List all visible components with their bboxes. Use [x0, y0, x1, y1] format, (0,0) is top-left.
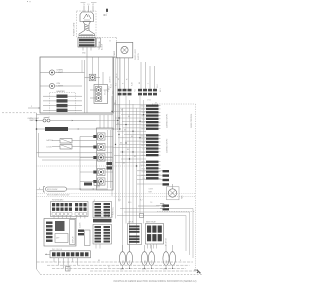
element column side bars — [107, 162, 113, 165]
svg-text:BK-12: BK-12 — [141, 135, 146, 137]
wires membrane to display — [53, 215, 55, 218]
svg-text:W-2: W-2 — [116, 83, 118, 86]
wires terminal strip down — [53, 258, 55, 262]
svg-text:BK-12: BK-12 — [141, 165, 146, 167]
svg-text:MTR: MTR — [151, 259, 153, 263]
power relay coil — [121, 46, 128, 53]
svg-text:DISPLAY: DISPLAY — [72, 235, 75, 243]
svg-text:FAN: FAN — [181, 195, 184, 199]
svg-text:GRD: GRD — [82, 53, 86, 55]
oven light lamp — [49, 70, 54, 75]
wire from terminal block through console — [86, 57, 88, 113]
heater element resistors — [57, 95, 68, 98]
console enclosure box — [40, 57, 113, 113]
meat probe pins — [163, 205, 170, 207]
wire bar extension to bus — [96, 128, 120, 130]
svg-text:BK: BK — [98, 260, 100, 262]
wire switch left — [37, 120, 44, 122]
svg-text:R-81: R-81 — [142, 142, 146, 144]
svg-text:R-30: R-30 — [132, 82, 134, 86]
svg-text:BU-7: BU-7 — [142, 175, 146, 177]
svg-text:R-81: R-81 — [142, 112, 146, 114]
wire to lock connector — [138, 205, 160, 207]
svg-text:BK-5: BK-5 — [128, 202, 132, 204]
svg-text:BK: BK — [128, 116, 130, 118]
svg-text:Y-3: Y-3 — [150, 202, 152, 204]
cavity dotted divider upper — [37, 165, 148, 167]
display board box — [44, 219, 76, 247]
svg-text:W-30: W-30 — [141, 168, 145, 170]
svg-text:BROIL ELEMENT 3400W 240V: BROIL ELEMENT 3400W 240V — [47, 194, 70, 196]
svg-text:GY-22: GY-22 — [105, 90, 107, 95]
svg-text:BU-7: BU-7 — [142, 145, 146, 147]
relay board block — [146, 224, 164, 245]
power cord dashed enclosure — [77, 11, 97, 37]
wire entering console — [28, 107, 40, 109]
svg-text:P3 KEYBOARD: P3 KEYBOARD — [52, 199, 64, 202]
svg-text:BK: BK — [121, 110, 123, 112]
svg-text:POWER CORD: POWER CORD — [74, 22, 76, 36]
svg-text:P4 1 2 3 4 5 6: P4 1 2 3 4 5 6 — [52, 249, 62, 251]
wire mesh vertical runs — [111, 96, 113, 196]
oven lamp L4 — [98, 168, 106, 175]
power cord plug head — [80, 12, 94, 22]
cabinet boundary vertical — [36, 113, 38, 269]
broil element — [46, 187, 67, 191]
terminal strip arrow — [45, 253, 46, 255]
svg-text:Y-14: Y-14 — [142, 149, 145, 151]
svg-text:BK: BK — [124, 129, 126, 131]
svg-text:BR-4: BR-4 — [142, 162, 146, 164]
wire switch right — [50, 120, 96, 122]
control board connector J2 lower — [93, 225, 112, 245]
svg-text:RELAY BD: RELAY BD — [165, 237, 168, 246]
svg-text:BK: BK — [123, 162, 125, 164]
display board pin bars — [46, 222, 53, 224]
oven lamp L3 — [98, 154, 106, 161]
svg-text:BK-20-W: BK-20-W — [102, 211, 104, 218]
svg-text:LOCK: LOCK — [47, 147, 53, 149]
cooktop lamp 2 — [95, 87, 102, 94]
svg-text:T-11: T-11 — [135, 89, 137, 92]
cavity dotted divider lower — [37, 193, 197, 195]
wire junctions — [111, 111, 112, 112]
svg-text:LIGHT: LIGHT — [57, 85, 64, 87]
svg-text:W-30: W-30 — [141, 109, 145, 111]
svg-text:Y-14: Y-14 — [142, 178, 145, 180]
wires console top to lamp brackets — [92, 57, 94, 74]
terminal strip TB1 — [50, 251, 91, 258]
heater dashed box — [50, 93, 76, 114]
svg-text:R-7: R-7 — [140, 200, 143, 202]
wire label bar near broil — [84, 183, 92, 186]
wire parallel lower — [42, 159, 112, 161]
svg-text:BROIL 3400W: BROIL 3400W — [47, 189, 58, 191]
svg-text:R: R — [180, 260, 182, 262]
power cord prong labels N L1 L2 — [83, 6, 85, 13]
svg-text:B: B — [110, 41, 111, 43]
wire switch extension to bus — [96, 120, 118, 122]
wires below relay board — [147, 244, 149, 249]
cabinet boundary bottom — [40, 274, 202, 276]
power relay K1 box — [116, 42, 132, 58]
terminal block side bracket — [97, 38, 101, 47]
bake fan motor pair — [119, 252, 125, 266]
oven lamp L1 — [98, 133, 106, 140]
svg-text:COOL: COOL — [163, 269, 167, 271]
door latch relay B — [60, 145, 72, 150]
svg-text:W-2: W-2 — [118, 200, 121, 202]
svg-text:17 10: 17 10 — [147, 100, 151, 102]
svg-text:SWITCH: SWITCH — [138, 52, 140, 60]
svg-text:BK: BK — [127, 149, 129, 151]
wire relay B — [72, 146, 96, 148]
svg-text:N: N — [83, 4, 85, 6]
svg-text:BK: BK — [134, 156, 136, 158]
svg-text:LIGHTS: LIGHTS — [110, 76, 112, 83]
oven lamp L2 — [98, 143, 106, 150]
wire console top to power relay — [113, 56, 116, 58]
wire broil left mark — [37, 189, 44, 191]
svg-text:4: 4 — [39, 188, 40, 190]
svg-text:W-12: W-12 — [111, 84, 113, 88]
svg-text:L1: L1 — [88, 4, 90, 6]
membrane connector block — [51, 202, 89, 217]
wires below fan motors — [122, 265, 124, 268]
svg-text:BAKE RELAY: BAKE RELAY — [146, 221, 157, 224]
broil element bracket — [43, 187, 45, 193]
small junction box — [140, 214, 144, 218]
wire mesh short runs to fan pins — [137, 170, 163, 172]
wire label bars row upper right group — [138, 89, 142, 92]
svg-text:Y-14: Y-14 — [142, 119, 145, 121]
svg-text:BAKE: BAKE — [120, 268, 124, 271]
wire broil right — [67, 188, 109, 190]
svg-text:CONNECTOR P1: CONNECTOR P1 — [167, 114, 169, 128]
cooling fan motor pair — [163, 252, 169, 266]
power cord neck — [79, 22, 95, 36]
svg-text:BK-7: BK-7 — [108, 88, 110, 92]
svg-text:GY-4: GY-4 — [157, 84, 159, 88]
svg-text:BK: BK — [114, 103, 116, 105]
clock pin bars — [78, 230, 84, 232]
arrowhead cluster bottom right — [194, 269, 195, 271]
svg-text:2: 2 — [31, 106, 32, 108]
svg-text:GY-9: GY-9 — [142, 155, 146, 157]
P1 connector pin labels — [146, 105, 159, 107]
stepped wire right 3 — [117, 215, 186, 217]
svg-text:BU-7: BU-7 — [142, 116, 146, 118]
svg-text:CONTROL: CONTROL — [113, 207, 115, 215]
svg-text:BK-12: BK-12 — [141, 106, 146, 108]
oven element column box — [97, 128, 114, 190]
svg-text:W-30: W-30 — [141, 139, 145, 141]
display board IC — [55, 221, 65, 231]
svg-text:GY-9: GY-9 — [142, 125, 146, 127]
control board bar — [93, 219, 112, 223]
dimension mark right of plug — [106, 9, 108, 12]
wires door lock drops — [140, 62, 142, 89]
oven light switch — [43, 119, 46, 122]
svg-text:DOOR LOCK: DOOR LOCK — [135, 48, 137, 60]
svg-text:R-81: R-81 — [142, 172, 146, 174]
svg-text:BR-4: BR-4 — [142, 129, 146, 131]
svg-text:DSP: DSP — [56, 238, 59, 240]
wire relay A — [72, 140, 96, 142]
oven body dashed box — [152, 103, 196, 105]
display board connector strip — [70, 220, 76, 245]
svg-text:L2: L2 — [92, 4, 94, 6]
door latch relay A — [60, 139, 72, 144]
svg-text:CONNECTOR P2: CONNECTOR P2 — [167, 139, 169, 153]
svg-text:BK: BK — [131, 136, 133, 138]
wire element bus — [79, 137, 81, 191]
wires below control board — [95, 244, 97, 249]
wires from power relay down — [119, 58, 121, 89]
junction box bottom — [66, 267, 71, 272]
wire label bar right — [68, 128, 96, 130]
clock connector box — [85, 230, 91, 246]
broil fan motor pair — [141, 252, 147, 266]
svg-text:MTR: MTR — [149, 192, 153, 194]
svg-text:BK: BK — [117, 123, 119, 125]
oven box lower dotted edge — [195, 212, 197, 271]
convection fan motor — [167, 187, 180, 200]
page specks top left — [27, 1, 28, 2]
cabinet boundary dashed left — [2, 112, 37, 114]
svg-text:1: 1 — [107, 13, 108, 15]
cooktop lamp 3 — [95, 95, 102, 102]
console right bus wires — [113, 57, 115, 130]
latch connector pins — [128, 224, 142, 245]
wire label bars row upper left group — [118, 89, 122, 92]
svg-text:8101P541-60 GEMINI ELECTRIC: 8101P541-60 GEMINI ELECTRIC RANGE WIRING… — [114, 280, 197, 283]
wire long horizontal upper — [37, 152, 113, 154]
svg-text:BK: BK — [120, 143, 122, 145]
cooktop lamp 1 — [89, 74, 96, 81]
wires to fan motors — [122, 245, 124, 252]
on light lamp — [49, 83, 54, 88]
stepped wire right 2 — [124, 211, 190, 213]
wires console to element column — [99, 115, 101, 128]
dashed lead to power relay — [97, 37, 117, 39]
element column inner verticals — [107, 130, 109, 188]
svg-text:CONV: CONV — [149, 189, 153, 191]
wire L-shaped down — [38, 133, 40, 157]
stepped wire right 1 — [120, 208, 193, 210]
cabinet boundary corner — [37, 269, 41, 274]
bottom bus wires — [37, 261, 194, 263]
svg-text:CLOCK: CLOCK — [80, 222, 82, 228]
svg-text:MTR: MTR — [129, 259, 131, 263]
wire mesh horizontal runs — [113, 104, 146, 106]
svg-text:OVEN CONTROL: OVEN CONTROL — [191, 114, 193, 128]
svg-text:OR-2: OR-2 — [141, 122, 145, 124]
terminal block — [78, 38, 96, 47]
console inner wires — [84, 60, 86, 113]
wire label bar left — [37, 128, 46, 130]
svg-text:BK-16: BK-16 — [116, 73, 118, 78]
svg-text:LIGHT: LIGHT — [57, 72, 64, 74]
cabinet light label bar — [45, 127, 68, 131]
terminal block bottom leads — [82, 47, 84, 51]
svg-text:BU-9: BU-9 — [160, 88, 162, 92]
convection fan pin labels — [163, 170, 170, 172]
svg-text:OR-2: OR-2 — [141, 152, 145, 154]
svg-text:BLOCK: BLOCK — [101, 43, 103, 50]
lamp cluster sub-box — [94, 85, 108, 104]
oven lamp L5 — [98, 178, 106, 185]
